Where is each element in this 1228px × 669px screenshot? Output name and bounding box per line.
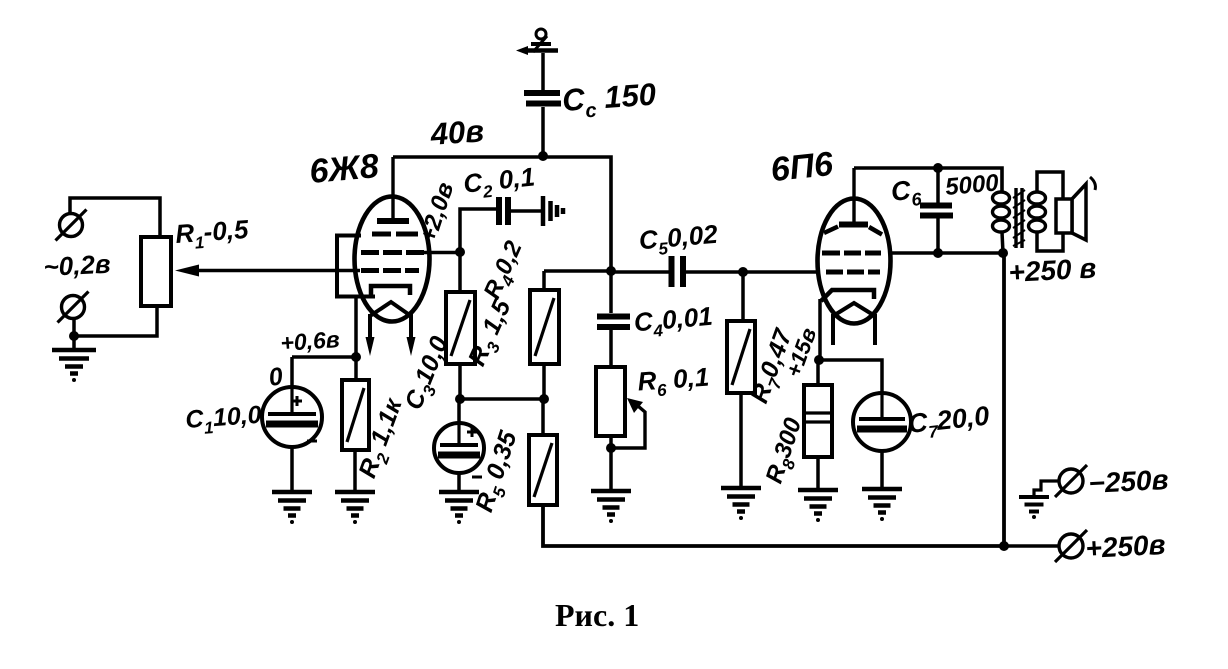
electrolytic C7 bbox=[853, 393, 911, 451]
terminal -250в wiring bbox=[1034, 481, 1059, 496]
capacitor C1 bbox=[262, 387, 322, 447]
node Cc junction bbox=[538, 151, 548, 161]
wire C1 top lead bbox=[290, 357, 294, 388]
tube U1 suppressor grid bbox=[372, 232, 418, 237]
tube U1 anode lead bbox=[391, 157, 394, 219]
svg-text:+250в: +250в bbox=[1085, 529, 1167, 564]
wire R2 top lead bbox=[354, 357, 358, 380]
wire 6П6 anode bus bbox=[854, 168, 1002, 192]
wire R4 top lead bbox=[542, 271, 546, 290]
capacitor Cc bbox=[524, 93, 561, 104]
node screen grid +2,0в bbox=[455, 247, 465, 257]
svg-text:6Ж8: 6Ж8 bbox=[308, 147, 380, 191]
wire R5 top lead bbox=[541, 399, 545, 435]
svg-text:40в: 40в bbox=[429, 113, 486, 152]
ground C7 bbox=[862, 489, 902, 513]
wire R3 bottom lead bbox=[458, 364, 462, 399]
transformer secondary coil bbox=[1029, 192, 1046, 232]
wire ground stem input bbox=[72, 336, 76, 350]
wiper arrow R6 bbox=[611, 398, 645, 448]
ground -250в bbox=[1019, 497, 1049, 512]
tube U1 anode bbox=[377, 218, 409, 224]
tube U1 heater bbox=[370, 302, 411, 316]
tube U2 6П6 envelope bbox=[818, 199, 891, 324]
tube U1 6Ж8 envelope bbox=[355, 197, 430, 322]
ground C2 (sideways) bbox=[543, 196, 563, 226]
wire C3 bottom lead bbox=[457, 473, 461, 492]
ground R2 bbox=[335, 492, 375, 516]
capacitor C2 bbox=[499, 197, 508, 225]
wire C4 top lead bbox=[609, 271, 613, 313]
resistor R8 stripes bbox=[804, 413, 832, 422]
terminal input top bbox=[56, 210, 87, 241]
wire Cc to node bbox=[541, 107, 545, 156]
wiper arrow R1 bbox=[175, 265, 360, 277]
capacitor C6 bbox=[920, 206, 953, 216]
wire ground stem R6 bbox=[609, 448, 613, 491]
tube U2 beam plates bbox=[824, 227, 882, 235]
node C6 bottom bbox=[933, 248, 943, 258]
wire primary bottom lead bbox=[1002, 232, 1003, 253]
antenna terminal bbox=[524, 29, 558, 52]
wire C2 to ground bbox=[511, 209, 541, 213]
wire R8 bottom lead bbox=[816, 457, 820, 490]
resistor R5 bbox=[529, 435, 557, 505]
wire C7 bottom lead bbox=[880, 451, 884, 489]
tube U1 heater lead left bbox=[366, 314, 375, 356]
resistor R3 bbox=[446, 292, 475, 364]
svg-text:~0,2в: ~0,2в bbox=[43, 249, 112, 282]
terminal -250в bbox=[1055, 465, 1087, 497]
wire R4 to anode node bbox=[544, 269, 611, 273]
svg-text:+250 в: +250 в bbox=[1008, 252, 1097, 288]
wire C6 bottom lead bbox=[936, 218, 940, 253]
node cathode U2 +15в bbox=[814, 355, 824, 365]
wire C3 top lead bbox=[457, 399, 461, 423]
tube U1 cathode bbox=[371, 286, 410, 296]
wire 40в anode bus bbox=[393, 157, 611, 271]
resistor R2 bbox=[342, 380, 369, 450]
node anode junction bbox=[606, 266, 616, 276]
node +250 bottom bbox=[999, 541, 1009, 551]
wire secondary top bbox=[1037, 172, 1063, 199]
tube U1 control grid bbox=[361, 268, 419, 273]
capacitor C5 bbox=[672, 256, 684, 287]
wire bus to C5 bbox=[611, 270, 669, 274]
potentiometer R6 bbox=[596, 367, 625, 436]
wire R6 bottom lead bbox=[609, 436, 613, 448]
wire R7 top lead bbox=[741, 272, 745, 321]
tube U1 screen grid bbox=[361, 250, 424, 255]
wire C4 to R6 bbox=[609, 330, 613, 367]
terminal +250в bbox=[1055, 530, 1087, 562]
wire to +250 terminal bbox=[1004, 544, 1059, 548]
ground R8 bbox=[798, 490, 838, 514]
capacitor C4 bbox=[597, 317, 630, 328]
node transformer primary bottom bbox=[998, 248, 1008, 258]
wire +250 rail bbox=[1002, 253, 1006, 546]
wire cathode lead U1 bbox=[354, 295, 358, 357]
wire screen to C2 bbox=[460, 209, 497, 252]
potentiometer R1 bbox=[141, 237, 171, 306]
wire to C7 bbox=[819, 360, 882, 394]
node C3 junction bbox=[455, 394, 465, 404]
electrolytic C3 bbox=[434, 423, 484, 477]
svg-text:+0,6в: +0,6в bbox=[280, 326, 341, 356]
wire antenna to Cc bbox=[541, 53, 545, 90]
wire node to R4 bottom bbox=[460, 397, 544, 401]
wire screen to node bbox=[424, 251, 460, 255]
wire screen bus 6П6 bbox=[890, 251, 1003, 255]
tube U2 cathode bbox=[821, 290, 874, 301]
speaker bbox=[1056, 177, 1095, 240]
tube U2 anode lead bbox=[852, 168, 855, 222]
resistor R7 bbox=[727, 321, 755, 393]
node cathode U1 bbox=[351, 352, 361, 362]
wire to 6П6 grid bbox=[743, 270, 820, 274]
wire R8 top lead bbox=[816, 360, 820, 385]
terminal input bottom bbox=[58, 292, 89, 323]
transformer primary coil bbox=[993, 192, 1010, 232]
tube U2 anode bbox=[839, 222, 868, 228]
tube U2 screen grid bbox=[822, 251, 881, 256]
tube U1 heater lead right bbox=[407, 314, 416, 356]
wire C1 bottom lead bbox=[290, 447, 294, 492]
wire C6 top lead bbox=[936, 168, 940, 203]
tube U2 heater bbox=[833, 303, 875, 316]
wire R7 bottom lead bbox=[739, 393, 743, 488]
node C6 top bbox=[933, 163, 943, 173]
wire secondary bottom bbox=[1037, 232, 1063, 251]
wire R4 bottom lead bbox=[542, 364, 546, 399]
ground R6 bbox=[591, 491, 631, 515]
tube U2 heater leads bbox=[833, 314, 875, 345]
svg-text:−250в: −250в bbox=[1088, 464, 1170, 499]
node 6П6 grid junction bbox=[738, 267, 748, 277]
resistor R8 bbox=[804, 385, 832, 457]
wire input bottom stub bbox=[72, 318, 76, 336]
transformer core bbox=[1013, 188, 1025, 248]
wire R2 bottom lead bbox=[353, 450, 357, 492]
wire R3 top lead bbox=[458, 252, 462, 292]
resistor R4 bbox=[530, 290, 559, 364]
wire C5 to node bbox=[685, 270, 743, 274]
node R4 bottom bbox=[539, 394, 549, 404]
wire to C1 bbox=[292, 355, 356, 359]
wire cathode lead U2 bbox=[818, 299, 822, 360]
ground input bbox=[52, 350, 96, 374]
node R6 wiper junction bbox=[606, 443, 616, 453]
ground R7 bbox=[721, 488, 761, 512]
svg-text:Рис. 1: Рис. 1 bbox=[555, 597, 639, 633]
node input ground junction bbox=[69, 331, 79, 341]
wire input top bbox=[70, 198, 160, 237]
wire bottom +250 rail bbox=[543, 505, 1004, 546]
tube U2 control grid bbox=[826, 270, 880, 275]
ground C1 bbox=[272, 492, 312, 516]
wire input bottom bbox=[74, 306, 157, 336]
svg-text:6П6: 6П6 bbox=[769, 145, 836, 189]
tube U1 grid shield bracket bbox=[335, 234, 375, 299]
ground C3 bbox=[439, 492, 479, 516]
